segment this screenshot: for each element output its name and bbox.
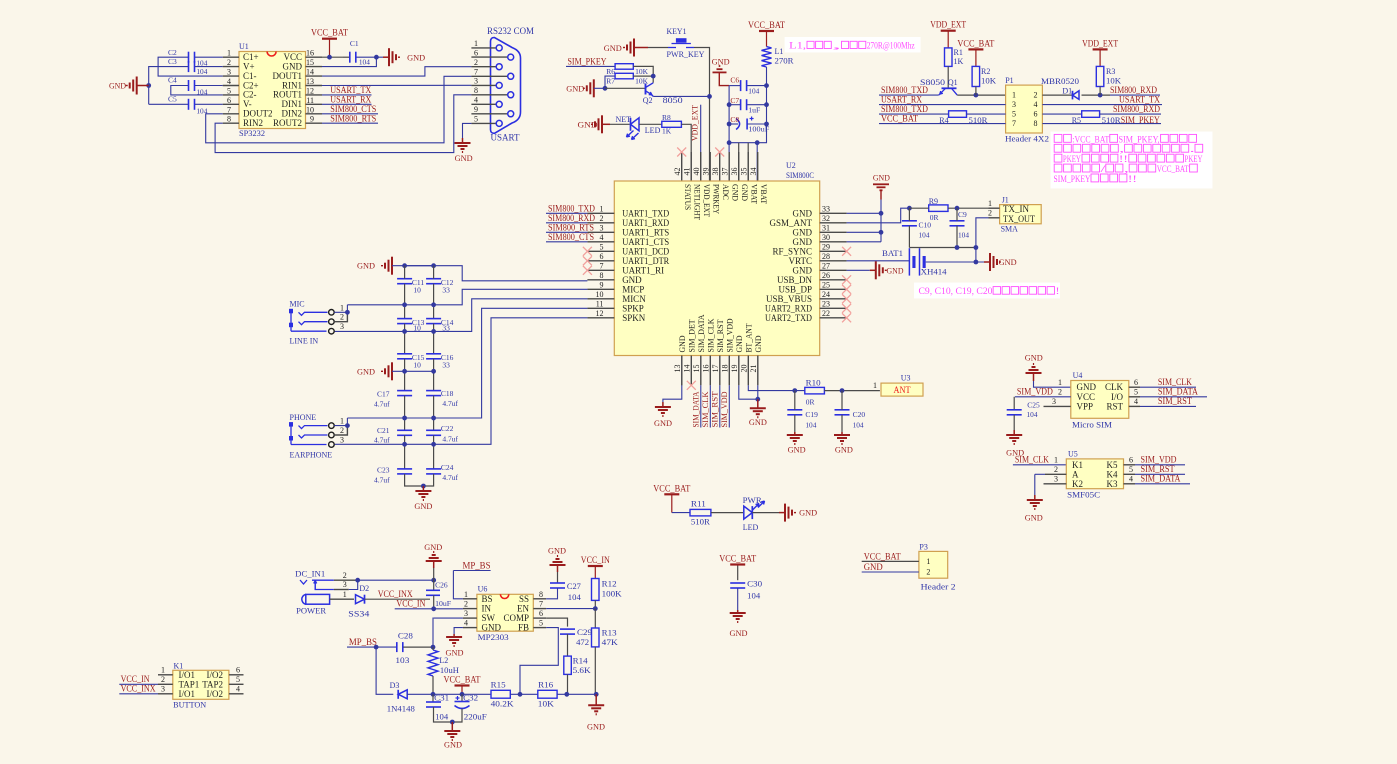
capacitor C16	[426, 353, 441, 355]
resistor R10	[805, 387, 825, 394]
svg-text:USART_TX: USART_TX	[330, 85, 371, 95]
svg-text:1: 1	[988, 199, 992, 208]
svg-text:GND: GND	[864, 562, 883, 572]
wire right row4	[1042, 123, 1161, 125]
wire MP_BS to U6 pin1	[453, 570, 490, 572]
U5 pin5 SIM_RST	[1124, 473, 1136, 475]
svg-text:1K: 1K	[954, 57, 964, 66]
svg-text:L1,: L1,	[789, 41, 806, 51]
svg-text:39: 39	[701, 168, 710, 176]
U2 pin 39 stub	[709, 152, 711, 181]
wire R12 to EN row	[594, 600, 596, 608]
svg-text:1: 1	[464, 590, 468, 599]
svg-text:MICN: MICN	[622, 294, 646, 304]
svg-text:I/O1: I/O1	[179, 689, 196, 699]
wire pins2+3 join	[349, 580, 358, 589]
svg-text:9: 9	[474, 105, 478, 114]
svg-text:I/O: I/O	[1111, 392, 1123, 402]
svg-text:C21: C21	[377, 426, 390, 435]
ground GND (U4 pin1)	[1033, 373, 1035, 381]
wire chainL B-C	[404, 324, 406, 354]
svg-text:R12: R12	[602, 580, 617, 589]
ground GND (pin27)	[870, 269, 876, 271]
U2 pin 3	[587, 231, 614, 233]
svg-text:4.7uf: 4.7uf	[442, 435, 458, 444]
svg-text:ROUT2: ROUT2	[273, 118, 302, 128]
svg-text:5.6K: 5.6K	[573, 666, 591, 675]
svg-text:2: 2	[340, 426, 344, 435]
wire L2 to output row	[432, 676, 434, 694]
svg-text:SIM800_RXD: SIM800_RXD	[1113, 104, 1160, 114]
wire Q1 to P1 pin1	[957, 94, 1005, 96]
U6 pin 8	[533, 598, 546, 600]
svg-text:1: 1	[1054, 455, 1058, 464]
svg-text:2: 2	[1034, 91, 1038, 100]
ground GND (Q2 base)	[593, 87, 595, 89]
wire LED to GND	[752, 512, 779, 514]
no-connect X pin25	[842, 285, 851, 294]
svg-text:SIM_VDD: SIM_VDD	[1141, 455, 1177, 465]
svg-text:9: 9	[310, 115, 314, 124]
capacitor C19	[787, 409, 802, 411]
svg-text:3: 3	[340, 322, 344, 331]
svg-text:C17: C17	[377, 390, 390, 399]
svg-text:KEY1: KEY1	[667, 27, 687, 36]
svg-text:U4: U4	[1073, 371, 1083, 380]
svg-text:C31: C31	[434, 694, 449, 703]
svg-text:14: 14	[682, 365, 691, 373]
svg-text:SPKN: SPKN	[622, 313, 646, 323]
svg-text:3: 3	[600, 224, 604, 233]
wire VDD_EXT to pin40	[700, 105, 702, 181]
svg-text:2: 2	[926, 568, 930, 577]
wire SPKN row (pin12)	[334, 318, 587, 445]
U1 pin 1	[223, 56, 239, 58]
resistor R1	[945, 48, 953, 67]
svg-text:EN: EN	[517, 604, 529, 614]
junction R2	[974, 93, 979, 98]
svg-text:GND: GND	[604, 44, 622, 53]
net label SIM_DATA (vertical)	[700, 356, 702, 386]
svg-text:GND: GND	[678, 335, 687, 352]
U1 pin 15	[306, 66, 323, 68]
svg-text:BAT1: BAT1	[882, 249, 903, 258]
junction SW/L2	[431, 645, 436, 650]
svg-text:PWR_KEY: PWR_KEY	[667, 50, 705, 59]
wire pin15 to GND node	[322, 57, 376, 66]
svg-text:VCC_BAT: VCC_BAT	[444, 675, 481, 685]
U4 pin3 stub	[1044, 405, 1071, 407]
svg-text:LED: LED	[645, 126, 661, 135]
wire C9/C10 bottom row	[909, 247, 976, 249]
svg-text:6: 6	[539, 609, 543, 618]
U6 pin 6	[533, 617, 546, 619]
J1 pin 2	[989, 217, 1000, 219]
U1 pin 10	[306, 113, 323, 115]
U2 pin 23	[820, 307, 847, 309]
svg-text:SIM_DET: SIM_DET	[687, 319, 696, 352]
ground GND (U1 left)	[137, 85, 149, 87]
svg-text:C30: C30	[747, 580, 762, 589]
svg-text:8: 8	[227, 115, 231, 124]
svg-text:VDD_EXT: VDD_EXT	[1082, 38, 1118, 48]
svg-text:UART1_RXD: UART1_RXD	[622, 218, 669, 228]
svg-text:3: 3	[474, 77, 478, 86]
DB9 pin 2	[471, 66, 496, 68]
wire P3 pin2	[862, 571, 919, 573]
junction EN	[593, 606, 598, 611]
svg-text:GND: GND	[712, 58, 730, 67]
svg-text:2: 2	[161, 675, 165, 684]
svg-text:GND: GND	[788, 446, 806, 455]
wire C8	[729, 123, 738, 125]
svg-text:TAP2: TAP2	[202, 679, 223, 689]
svg-text:USART_RX: USART_RX	[881, 94, 922, 104]
svg-text:PWRKEY: PWRKEY	[711, 184, 720, 214]
svg-text:2: 2	[1058, 387, 1062, 396]
svg-text:2: 2	[343, 571, 347, 580]
capacitor C31	[432, 694, 434, 702]
svg-text:1: 1	[600, 205, 604, 214]
svg-text:3: 3	[340, 436, 344, 445]
svg-text:P1: P1	[1005, 76, 1013, 85]
cap bus left (pin37)	[728, 86, 730, 181]
ground GND (C19)	[794, 432, 796, 435]
wire SW vertical	[432, 618, 435, 647]
svg-text:SMA: SMA	[1001, 225, 1019, 234]
svg-text:SIM_DATA: SIM_DATA	[1158, 387, 1198, 397]
capacitor C27	[557, 572, 559, 583]
wire R16 right to GND	[557, 693, 596, 695]
svg-text:SIM800_TXD: SIM800_TXD	[548, 203, 595, 213]
power VDD_EXT (R3)	[1099, 49, 1101, 66]
U2 pin 2	[587, 222, 614, 224]
wire pin21 to GND	[757, 356, 759, 386]
svg-text:NETLIGHT: NETLIGHT	[692, 184, 701, 220]
svg-text:MP2303: MP2303	[478, 633, 509, 642]
U2 pin 12	[587, 317, 614, 319]
U1 pin 11	[306, 103, 323, 105]
cap bus right (VBAT)	[729, 67, 766, 143]
ground GND (C6 group)	[713, 71, 727, 73]
svg-text:11: 11	[306, 96, 314, 105]
svg-text:28: 28	[822, 252, 830, 261]
svg-text:C4: C4	[168, 76, 177, 85]
svg-text:SS: SS	[519, 594, 529, 604]
svg-text:10K: 10K	[635, 67, 649, 76]
net label SIM_CLK (vertical)	[709, 356, 711, 386]
svg-text:GND: GND	[654, 419, 672, 428]
svg-text:37: 37	[720, 168, 729, 176]
capacitor C3	[188, 61, 190, 72]
svg-text:C19: C19	[805, 410, 818, 419]
U2 pin 10	[587, 298, 614, 300]
svg-text:Q2: Q2	[643, 96, 653, 105]
U2 pin 27	[820, 269, 847, 271]
wire GND (pin27)	[847, 269, 870, 271]
wire MIC pin3 to MICN row	[333, 330, 335, 332]
svg-text:VCC: VCC	[1077, 392, 1096, 402]
wire R7 right	[633, 75, 653, 77]
wire pin16 to VCC_BAT	[322, 56, 343, 58]
U2 pin 11	[587, 307, 614, 309]
inductor L2	[428, 650, 438, 676]
U4 pin6 SIM_CLK	[1129, 386, 1140, 388]
svg-text:I/O1: I/O1	[179, 670, 196, 680]
J1 pin 1	[989, 207, 1000, 209]
resistor R6	[615, 64, 633, 69]
resistor R11	[690, 509, 711, 516]
wire R10 right	[824, 390, 880, 392]
svg-text:2: 2	[1054, 465, 1058, 474]
svg-text:270R@100Mhz: 270R@100Mhz	[867, 41, 915, 51]
K1 pin6 stub	[229, 674, 244, 676]
wire K1 pin3	[119, 693, 158, 695]
wire base	[605, 87, 646, 89]
wire battery right to GND	[926, 261, 984, 263]
wire R12-R13	[594, 609, 596, 628]
wire P1 pin2 to D1	[1042, 94, 1072, 96]
ground GND (audio mid)	[391, 370, 393, 372]
IC U1 SP3232 body	[239, 52, 306, 129]
svg-text:VCC_IN: VCC_IN	[396, 599, 425, 609]
svg-text:C9, C10, C19, C20: C9, C10, C19, C20	[919, 286, 994, 296]
wire C6	[729, 85, 740, 87]
svg-text:RIN2: RIN2	[243, 118, 263, 128]
svg-text:D3: D3	[390, 681, 400, 690]
svg-text:2: 2	[340, 313, 344, 322]
wire pin34	[756, 143, 758, 181]
wire SPKP row (pin11)	[347, 308, 587, 418]
wire C27 to U6 pin8	[546, 588, 557, 599]
svg-text:1: 1	[343, 590, 347, 599]
note P1 jumper (magenta)	[1051, 132, 1213, 189]
svg-text:POWER: POWER	[296, 607, 327, 616]
capacitor C22	[426, 429, 441, 431]
wire R3 down	[1099, 87, 1101, 96]
wire R2 down	[975, 87, 977, 96]
wire GND row to pin8	[392, 266, 587, 281]
svg-text:SIM_DATA: SIM_DATA	[691, 391, 700, 427]
svg-text:6: 6	[600, 252, 604, 261]
wire PHONE pin3 to SPKN row	[333, 443, 335, 445]
U2 pin 7	[587, 269, 614, 271]
svg-text:27: 27	[822, 262, 830, 271]
power VCC_BAT (C30)	[737, 565, 739, 581]
U4 pin4 SIM_RST	[1129, 405, 1140, 407]
svg-text:104: 104	[359, 58, 370, 67]
svg-text:GND: GND	[414, 502, 432, 511]
svg-text:SIM_CLK: SIM_CLK	[706, 318, 715, 352]
svg-text:4: 4	[600, 233, 604, 242]
svg-text:GND: GND	[730, 184, 739, 201]
svg-text:0R: 0R	[806, 398, 815, 407]
U2 pin 25	[820, 288, 847, 290]
svg-text:10K: 10K	[635, 76, 649, 85]
svg-text:,: ,	[1124, 164, 1129, 174]
svg-text:V-: V-	[243, 99, 252, 109]
svg-text:12: 12	[306, 86, 314, 95]
resistor R5	[1082, 111, 1100, 118]
U1 pin 4	[223, 85, 239, 87]
svg-text:BT_ANT: BT_ANT	[744, 323, 753, 352]
U2 pin 36 stub	[738, 152, 740, 181]
svg-text:ADC: ADC	[721, 184, 730, 200]
svg-text:GND: GND	[444, 741, 462, 750]
svg-text:C25: C25	[1027, 401, 1040, 410]
wire DB9 pin5 to GND	[463, 123, 472, 138]
svg-text:GND: GND	[357, 367, 375, 376]
wire MP_BS row	[347, 646, 397, 648]
wire C4 to pin5	[171, 86, 223, 95]
svg-text:C6: C6	[730, 76, 739, 85]
ground GND (C1)	[383, 56, 389, 58]
svg-text:P3: P3	[919, 543, 927, 552]
no-connect X pin29	[842, 247, 851, 256]
no-connect X pin24	[842, 294, 851, 303]
ferrite bead L1	[762, 47, 772, 67]
junction C20	[840, 388, 845, 393]
svg-text:GND: GND	[999, 258, 1017, 267]
U2 pin 35 stub	[747, 152, 749, 181]
svg-text:1: 1	[873, 381, 877, 390]
svg-text:100K: 100K	[602, 590, 622, 599]
wire P3 pin1	[862, 560, 919, 562]
wire GND mid row	[392, 370, 434, 372]
note L1 (magenta)	[785, 37, 921, 53]
DB9 pin 4	[471, 103, 496, 105]
junction Q2 base	[603, 86, 608, 91]
svg-text:10: 10	[413, 286, 421, 295]
wire C29 to R14	[567, 634, 569, 656]
svg-text:C20: C20	[853, 410, 866, 419]
svg-text:UART1_TXD: UART1_TXD	[622, 208, 669, 218]
svg-text:C2: C2	[168, 48, 177, 57]
K1 pin1 stub	[158, 674, 173, 676]
wire VRTC (pin28) to battery	[847, 260, 910, 262]
resistor R4	[949, 111, 967, 118]
capacitor C30	[730, 582, 745, 584]
svg-text:14: 14	[306, 68, 314, 77]
U2 pin 26	[820, 279, 847, 281]
svg-text:220uF: 220uF	[464, 713, 488, 722]
svg-text:472: 472	[576, 638, 589, 647]
svg-text:GND: GND	[835, 446, 853, 455]
svg-text:4.7uf: 4.7uf	[374, 436, 390, 445]
no-connect X pin38	[715, 148, 724, 157]
transistor Q1 S8050	[942, 87, 957, 89]
svg-text:4: 4	[1134, 397, 1138, 406]
svg-text:SIM_RST: SIM_RST	[1158, 396, 1192, 406]
svg-text:R3: R3	[1106, 67, 1115, 76]
U1 pin 12	[306, 94, 323, 96]
svg-text:C26: C26	[435, 580, 448, 589]
svg-text:31: 31	[822, 224, 830, 233]
svg-text:104: 104	[919, 231, 930, 240]
svg-text:GND: GND	[587, 723, 605, 732]
svg-text:SIM800_TXD: SIM800_TXD	[881, 104, 928, 114]
no-connect X pin14	[690, 356, 692, 386]
svg-text:SIM_VDD: SIM_VDD	[720, 391, 729, 427]
svg-text:4.7uf: 4.7uf	[442, 399, 458, 408]
svg-text:2: 2	[600, 214, 604, 223]
svg-text:104: 104	[958, 231, 969, 240]
svg-text:1K: 1K	[662, 126, 672, 135]
power VCC_BAT (R2)	[975, 49, 977, 66]
U1 pin 13	[306, 85, 323, 87]
svg-text:SPKP: SPKP	[622, 303, 644, 313]
svg-text:1N4148: 1N4148	[387, 705, 415, 714]
svg-text:1: 1	[1012, 91, 1016, 100]
U6 pin 3	[463, 617, 477, 619]
svg-text:1: 1	[340, 303, 344, 312]
svg-text:23: 23	[822, 300, 830, 309]
svg-text:C3: C3	[168, 57, 177, 66]
svg-text:33: 33	[822, 205, 830, 214]
svg-text:7: 7	[539, 600, 543, 609]
capacitor C6	[740, 80, 742, 91]
wire R9 leads	[909, 207, 928, 209]
svg-text:EARPHONE: EARPHONE	[290, 451, 333, 460]
svg-text:USART: USART	[491, 133, 520, 143]
U5 pin4 SIM_DATA	[1124, 483, 1136, 485]
svg-text:5: 5	[1012, 110, 1016, 119]
wire GND bus	[880, 190, 882, 199]
svg-text:3: 3	[464, 609, 468, 618]
svg-text:40.2K: 40.2K	[491, 700, 514, 709]
svg-text:5: 5	[600, 243, 604, 252]
U2 pin 24	[820, 298, 847, 300]
DB9 pin 3	[471, 84, 496, 86]
wire BT_ANT (pin20) to R10	[747, 356, 749, 386]
svg-text:10K: 10K	[981, 77, 996, 86]
svg-text:SIM_VDD: SIM_VDD	[1017, 387, 1053, 397]
svg-text:VCC_BAT: VCC_BAT	[748, 20, 785, 30]
wire U1 pin8 RIN2 to DB9 pin8	[215, 95, 471, 153]
svg-text:104: 104	[747, 592, 760, 601]
junction PWRKEY	[707, 94, 712, 99]
svg-text:RST: RST	[1106, 401, 1123, 411]
svg-text:8: 8	[539, 590, 543, 599]
wire C4 to pin4	[195, 85, 223, 87]
power VCC_BAT (L1)	[766, 31, 768, 47]
svg-text:6: 6	[474, 48, 478, 57]
svg-text:6: 6	[1134, 378, 1138, 387]
svg-text:13: 13	[673, 365, 682, 373]
wire SIM_CLK to U5	[1013, 464, 1066, 466]
svg-text:33: 33	[442, 361, 450, 370]
wire D2 cathode VCC_INX	[365, 598, 431, 600]
DB9 pin 1	[471, 47, 496, 49]
svg-text:DC_IN1: DC_IN1	[295, 570, 325, 579]
power VCC_BAT (R11)	[671, 494, 673, 512]
svg-text:4.7uf: 4.7uf	[374, 476, 390, 485]
svg-text:BS: BS	[482, 594, 493, 604]
capacitor C18	[426, 390, 441, 392]
svg-text:UART1_DCD: UART1_DCD	[622, 246, 669, 256]
junction GND rail	[146, 83, 151, 88]
wire chainL C-D	[404, 359, 406, 391]
svg-text:5: 5	[227, 86, 231, 95]
power VDD_EXT (R1)	[947, 31, 949, 48]
svg-text:C18: C18	[441, 389, 454, 398]
svg-text:GSM_ANT: GSM_ANT	[769, 218, 812, 228]
svg-text:1: 1	[926, 557, 930, 566]
DB9 pin 8	[471, 94, 507, 96]
ground GND (DB9)	[462, 138, 464, 143]
svg-text:5: 5	[1129, 465, 1133, 474]
svg-text:104: 104	[435, 713, 448, 722]
